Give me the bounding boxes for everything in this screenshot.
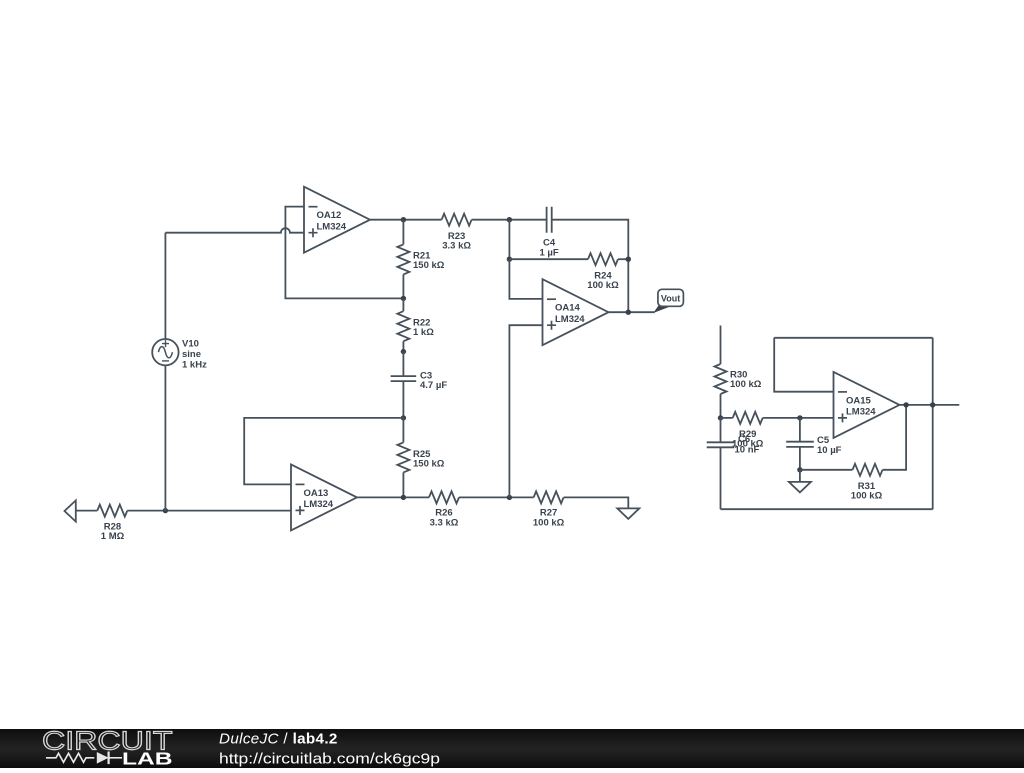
node	[903, 402, 908, 407]
wire	[774, 338, 833, 392]
wire	[76, 510, 98, 512]
svg-text:3.3 kΩ: 3.3 kΩ	[430, 517, 459, 528]
svg-text:100 kΩ: 100 kΩ	[533, 517, 565, 528]
svg-text:1 kHz: 1 kHz	[182, 359, 207, 370]
wire	[370, 219, 442, 221]
wire	[127, 510, 291, 512]
svg-text:Vout: Vout	[661, 293, 680, 303]
wire with hop	[165, 228, 304, 232]
wire	[721, 508, 933, 510]
capacitor C3	[402, 352, 404, 377]
svg-text:OA15: OA15	[846, 395, 872, 406]
wire	[357, 496, 429, 498]
svg-text:http://circuitlab.com/ck6gc9p: http://circuitlab.com/ck6gc9p	[219, 750, 440, 767]
svg-text:LM324: LM324	[846, 407, 876, 418]
svg-text:100 kΩ: 100 kΩ	[587, 280, 619, 291]
capacitor C4	[547, 207, 552, 233]
svg-text:100 kΩ: 100 kΩ	[730, 379, 762, 390]
svg-text:OA12: OA12	[317, 210, 342, 221]
node	[507, 257, 512, 262]
logo diode	[97, 752, 109, 764]
svg-text:OA14: OA14	[555, 303, 581, 314]
wire	[618, 258, 628, 260]
capacitor C5	[799, 418, 801, 442]
node	[507, 217, 512, 222]
resistor R24	[588, 253, 618, 265]
wire	[509, 258, 588, 260]
wire	[609, 311, 655, 313]
svg-text:10 µF: 10 µF	[817, 445, 842, 456]
node	[401, 349, 406, 354]
svg-text:100 kΩ: 100 kΩ	[851, 491, 883, 502]
resistor R29	[721, 417, 733, 419]
footer bar	[0, 729, 1024, 768]
resistor R21	[402, 220, 404, 245]
resistor R27	[534, 491, 564, 503]
logo resistor squiggle	[46, 753, 94, 762]
op-amp OA14	[543, 279, 609, 345]
node	[930, 402, 935, 407]
wire	[472, 219, 547, 221]
op-amp OA13	[291, 464, 357, 530]
op-amp OA15	[834, 372, 900, 438]
node	[401, 495, 406, 500]
node	[797, 415, 802, 420]
resistor R28	[97, 505, 127, 517]
wire	[932, 338, 934, 509]
node	[401, 217, 406, 222]
capacitor C6	[720, 418, 722, 442]
node	[626, 257, 631, 262]
svg-text:LAB: LAB	[122, 748, 173, 768]
wire	[459, 496, 534, 498]
ground	[617, 508, 639, 519]
wire	[164, 365, 166, 510]
node	[797, 467, 802, 472]
svg-text:OA13: OA13	[304, 488, 329, 499]
resistor R23	[442, 214, 472, 226]
wire	[508, 220, 510, 260]
op-amp OA12	[304, 187, 370, 253]
wire	[164, 233, 166, 339]
wire	[509, 325, 542, 497]
input terminal	[65, 500, 76, 521]
resistor R31	[800, 469, 853, 471]
svg-text:1 kΩ: 1 kΩ	[413, 327, 434, 338]
resistor R26	[429, 491, 459, 503]
wire	[564, 497, 629, 508]
wire	[774, 337, 933, 339]
svg-text:LM324: LM324	[317, 221, 347, 232]
resistor R22	[402, 298, 404, 311]
svg-text:1 µF: 1 µF	[539, 247, 558, 258]
node	[401, 415, 406, 420]
ground	[799, 470, 801, 482]
svg-text:LM324: LM324	[555, 314, 585, 325]
svg-text:LM324: LM324	[304, 499, 334, 510]
voltage source V10	[152, 339, 178, 365]
svg-text:150 kΩ: 150 kΩ	[413, 260, 445, 271]
wire	[720, 326, 722, 365]
flag Vout	[655, 305, 669, 312]
wire	[509, 259, 542, 299]
svg-text:10 nF: 10 nF	[735, 444, 760, 455]
node	[163, 508, 168, 513]
svg-text:4.7 µF: 4.7 µF	[420, 380, 447, 391]
svg-text:3.3 kΩ: 3.3 kΩ	[442, 241, 471, 252]
node	[507, 495, 512, 500]
resistor R25	[402, 418, 404, 443]
node	[626, 310, 631, 315]
wire	[244, 418, 403, 485]
svg-text:150 kΩ: 150 kΩ	[413, 459, 445, 470]
node	[718, 415, 723, 420]
wire	[285, 207, 403, 299]
node	[401, 296, 406, 301]
wire	[900, 404, 960, 406]
svg-text:DulceJC / lab4.2: DulceJC / lab4.2	[219, 731, 338, 748]
svg-text:1 MΩ: 1 MΩ	[101, 531, 125, 542]
resistor R30	[715, 364, 727, 394]
